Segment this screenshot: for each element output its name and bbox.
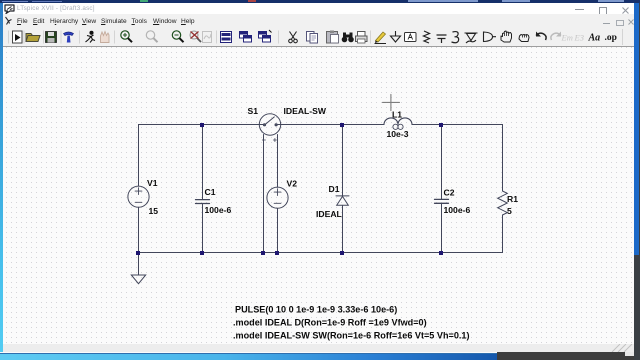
- toolbar icon: component: [484, 32, 497, 42]
- toolbar icon: undock plot (mag with red X): [190, 31, 201, 42]
- svg-text:5: 5: [507, 206, 512, 216]
- toolbar icon: run simulation man: [86, 31, 96, 42]
- wire S1 right control to V2 top: [277, 135, 279, 188]
- wire top rail right (L1 right to R1 corner): [412, 124, 503, 126]
- wire bottom rail: [139, 252, 503, 254]
- status bar: [0, 344, 640, 352]
- junction node rail at V2: [275, 251, 279, 255]
- resistor R1: [498, 191, 508, 215]
- mouse crosshair cursor: [383, 94, 400, 110]
- toolbar icon: cascade windows: [240, 32, 252, 43]
- toolbar icon: zoom out: [172, 31, 183, 42]
- capacitor C2: [435, 199, 449, 203]
- video top strip: [0, 0, 640, 3]
- LTspice app icon: [4, 4, 15, 14]
- window buttons: [575, 9, 584, 10]
- switch S1: [259, 114, 280, 135]
- svg-text:V2: V2: [287, 179, 298, 189]
- toolbar icon: move hand: [501, 31, 512, 42]
- toolbar icon: net label: [405, 33, 417, 42]
- svg-text:.model IDEAL-SW SW(Ron=1e-6 Ro: .model IDEAL-SW SW(Ron=1e-6 Roff=1e6 Vt=…: [233, 331, 470, 341]
- junction node rail at C2: [439, 251, 443, 255]
- window borders: [0, 3, 3, 352]
- wire C2 bottom vertical: [441, 204, 443, 253]
- junction node rail at S1 control: [261, 251, 265, 255]
- toolbar icon: cut scissors: [289, 32, 298, 43]
- toolbar icon: zoom in: [121, 31, 132, 42]
- toolbar icon: control panel hammer: [64, 32, 74, 43]
- voltage source V2: [267, 187, 288, 208]
- svg-text:D1: D1: [329, 184, 340, 194]
- toolbar icon: tile windows: [221, 32, 232, 43]
- wire R1 top vertical: [502, 125, 504, 192]
- junction node C2 top: [439, 123, 443, 127]
- wire V1 bottom vertical: [138, 207, 140, 252]
- menu bar: [0, 14, 640, 28]
- wire C2 top vertical: [441, 125, 443, 199]
- toolbar icon: halt (pale hand): [101, 32, 110, 43]
- toolbar icon: ground: [391, 31, 401, 42]
- svg-text:IDEAL: IDEAL: [316, 209, 342, 219]
- junction node D1 top (switch node): [340, 123, 344, 127]
- junction node ground rail at V1: [136, 251, 140, 255]
- toolbar icon: inductor: [452, 32, 459, 43]
- toolbar icon: copy: [307, 32, 318, 44]
- voltage source V1: [128, 186, 149, 207]
- wire C1 top vertical: [202, 125, 204, 200]
- svg-text:100e-6: 100e-6: [444, 205, 471, 215]
- svg-text:10e-3: 10e-3: [387, 129, 409, 139]
- junction node C1 top: [200, 123, 204, 127]
- wire S1 left control to ground rail: [263, 135, 265, 253]
- wire top rail left (V1 top to S1 left): [139, 124, 260, 126]
- svg-text:IDEAL-SW: IDEAL-SW: [284, 106, 327, 116]
- svg-text:L1: L1: [392, 110, 402, 120]
- svg-text:100e-6: 100e-6: [205, 205, 232, 215]
- toolbar icon: resistor: [424, 31, 430, 43]
- toolbar icon: undo: [536, 32, 546, 41]
- wire R1 bottom vertical: [502, 215, 504, 253]
- toolbar icon: find binoculars: [342, 33, 354, 43]
- svg-text:C2: C2: [444, 188, 455, 198]
- toolbar icon: paste: [327, 31, 339, 44]
- junction node rail at D1: [340, 251, 344, 255]
- capacitor C1: [196, 200, 210, 204]
- MDI child buttons: [603, 23, 610, 24]
- svg-text:S1: S1: [248, 106, 259, 116]
- right dark corner: [634, 344, 640, 352]
- toolbar icon: wire pencil: [375, 32, 387, 44]
- toolbar icon: open file: [26, 34, 40, 42]
- title bar: [0, 3, 640, 14]
- svg-text:.model IDEAL D(Ron=1e-9 Roff =: .model IDEAL D(Ron=1e-9 Roff =1e9 Vfwd=0…: [233, 318, 427, 328]
- wire ground stem: [138, 253, 140, 276]
- svg-text:C1: C1: [205, 187, 216, 197]
- toolbar icon: zoom extents (gray): [146, 31, 157, 42]
- toolbar icon: cascade windows 2: [259, 30, 272, 42]
- inductor L1: [384, 118, 412, 125]
- toolbar icon: drag hand: [519, 35, 529, 42]
- toolbar icon: save file: [46, 32, 57, 43]
- svg-text:R1: R1: [507, 194, 518, 204]
- svg-text:V1: V1: [147, 178, 158, 188]
- toolbar icon: plot pane (grayed): [203, 32, 212, 43]
- toolbar icon: print: [356, 32, 368, 44]
- wire V1 top vertical: [138, 125, 140, 187]
- ground symbol: [131, 275, 145, 284]
- wire V2 bottom vertical: [277, 208, 279, 252]
- wire top rail mid (S1 right to L1 left): [281, 124, 384, 126]
- resize grip: [608, 344, 636, 352]
- toolbar: [0, 28, 640, 47]
- wire D1 bottom vertical: [342, 205, 344, 252]
- toolbar icon: capacitor: [437, 35, 447, 43]
- toolbar icon: diode: [465, 33, 478, 43]
- diode D1: [336, 196, 349, 205]
- svg-text:15: 15: [149, 206, 159, 216]
- toolbar icon: run schematic: [13, 31, 23, 43]
- bottom progress bar: [0, 353, 497, 360]
- svg-text:PULSE(0 10 0 1e-9 1e-9 3.33e-6: PULSE(0 10 0 1e-9 1e-9 3.33e-6 10e-6): [235, 305, 397, 315]
- toolbar icon: redo (grayed): [551, 32, 561, 41]
- wire C1 bottom vertical: [202, 204, 204, 253]
- junction node rail at C1: [200, 251, 204, 255]
- wire D1 top vertical: [342, 125, 344, 196]
